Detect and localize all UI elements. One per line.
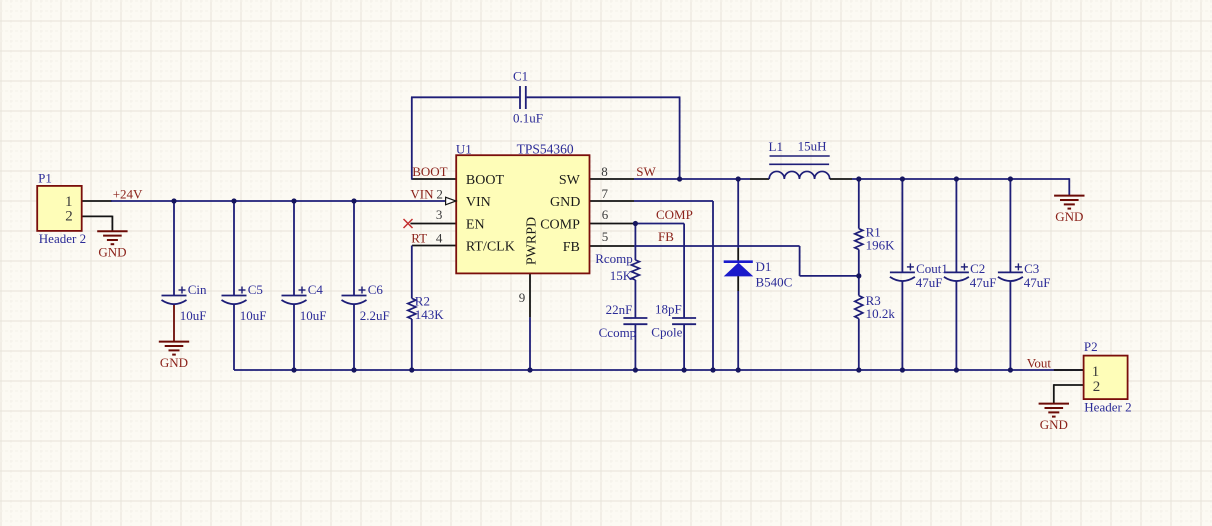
svg-text:1: 1	[65, 194, 73, 210]
svg-text:C5: C5	[248, 282, 263, 297]
svg-text:47uF: 47uF	[916, 275, 943, 290]
svg-text:EN: EN	[466, 217, 485, 232]
svg-text:2.2uF: 2.2uF	[360, 308, 390, 323]
svg-text:Cout1: Cout1	[916, 261, 948, 276]
svg-text:10uF: 10uF	[240, 308, 267, 323]
svg-text:5: 5	[602, 229, 609, 244]
svg-text:6: 6	[602, 207, 609, 222]
svg-text:GND: GND	[1040, 417, 1068, 432]
svg-text:7: 7	[602, 186, 609, 201]
svg-text:P1: P1	[38, 171, 52, 186]
svg-text:15K: 15K	[610, 268, 633, 283]
svg-text:GND: GND	[160, 355, 188, 370]
svg-text:15uH: 15uH	[798, 139, 827, 154]
svg-text:FB: FB	[658, 229, 674, 244]
svg-text:2: 2	[1093, 379, 1101, 395]
svg-text:Header 2: Header 2	[39, 231, 86, 246]
svg-text:FB: FB	[563, 240, 580, 255]
svg-text:P2: P2	[1084, 339, 1098, 354]
svg-text:3: 3	[436, 207, 443, 222]
svg-text:2: 2	[65, 209, 73, 225]
svg-text:BOOT: BOOT	[412, 164, 447, 179]
svg-text:PWRPD: PWRPD	[525, 217, 540, 265]
svg-text:8: 8	[601, 164, 608, 179]
svg-text:+24V: +24V	[113, 186, 143, 201]
svg-text:C1: C1	[513, 69, 528, 84]
svg-text:0.1uF: 0.1uF	[513, 111, 543, 126]
svg-text:VIN: VIN	[466, 195, 491, 210]
svg-text:SW: SW	[636, 164, 656, 179]
svg-text:TPS54360: TPS54360	[517, 142, 574, 157]
svg-text:Header 2: Header 2	[1084, 400, 1131, 415]
svg-text:RT/CLK: RT/CLK	[466, 239, 515, 254]
svg-text:RT: RT	[411, 231, 427, 246]
svg-text:COMP: COMP	[656, 207, 693, 222]
svg-text:L1: L1	[769, 139, 783, 154]
svg-text:GND: GND	[98, 245, 126, 260]
svg-text:2: 2	[436, 186, 443, 201]
svg-text:10uF: 10uF	[300, 308, 327, 323]
svg-text:4: 4	[436, 231, 443, 246]
svg-text:C3: C3	[1024, 261, 1039, 276]
svg-text:C2: C2	[970, 261, 985, 276]
svg-text:COMP: COMP	[540, 217, 580, 232]
svg-text:GND: GND	[550, 195, 580, 210]
svg-text:Cin: Cin	[188, 282, 207, 297]
svg-text:C4: C4	[308, 282, 324, 297]
svg-text:VIN: VIN	[410, 186, 434, 201]
svg-text:196K: 196K	[866, 238, 896, 253]
svg-text:Cpole: Cpole	[651, 325, 682, 340]
svg-text:10uF: 10uF	[180, 308, 207, 323]
svg-text:143K: 143K	[415, 307, 445, 322]
svg-text:Ccomp: Ccomp	[599, 325, 637, 340]
svg-text:22nF: 22nF	[606, 302, 633, 317]
svg-text:D1: D1	[756, 259, 772, 274]
svg-text:BOOT: BOOT	[466, 173, 505, 188]
svg-text:C6: C6	[368, 282, 384, 297]
svg-text:47uF: 47uF	[970, 275, 997, 290]
svg-text:Rcomp: Rcomp	[595, 251, 633, 266]
svg-text:Vout: Vout	[1027, 355, 1052, 370]
svg-text:U1: U1	[456, 142, 472, 157]
svg-text:1: 1	[1092, 364, 1100, 380]
svg-text:9: 9	[519, 290, 526, 305]
svg-text:10.2k: 10.2k	[866, 306, 896, 321]
svg-text:B540C: B540C	[756, 275, 793, 290]
svg-text:47uF: 47uF	[1024, 275, 1051, 290]
svg-text:SW: SW	[559, 173, 581, 188]
svg-text:18pF: 18pF	[655, 302, 682, 317]
svg-text:GND: GND	[1055, 209, 1083, 224]
